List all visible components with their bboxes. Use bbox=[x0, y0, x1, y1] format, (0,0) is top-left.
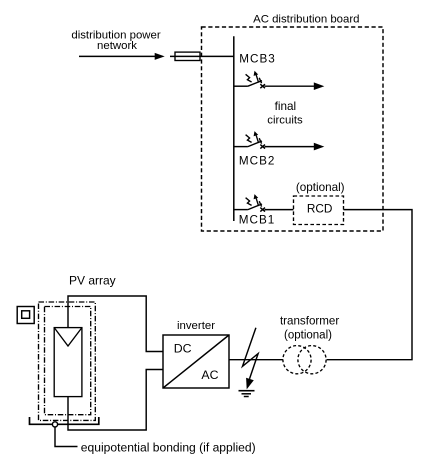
svg-text:MCB3: MCB3 bbox=[239, 53, 275, 66]
svg-text:final: final bbox=[275, 100, 296, 113]
svg-text:DC: DC bbox=[174, 342, 192, 356]
wire: bonding conductor bbox=[55, 427, 78, 447]
wire: fuse lead to busbar bbox=[170, 55, 234, 57]
svg-text:network: network bbox=[97, 40, 137, 52]
label: final circuits bbox=[267, 100, 303, 126]
svg-text:AC: AC bbox=[201, 368, 218, 382]
svg-text:(optional): (optional) bbox=[296, 181, 345, 194]
wire: PV negative to inverter DC input bbox=[68, 370, 163, 431]
svg-text:circuits: circuits bbox=[267, 114, 303, 126]
earthing arrow (functional earth of AC side) bbox=[243, 328, 259, 390]
label: distribution power network bbox=[71, 29, 160, 52]
wire: MCB3 final circuit arrow bbox=[265, 82, 325, 90]
PV module bbox=[54, 328, 82, 397]
fuse F1 bbox=[175, 52, 200, 60]
class II insulation symbol bbox=[17, 307, 34, 324]
wire: MCB1 to RCD bbox=[265, 209, 294, 211]
PV array boundary (dash-dot, inner) bbox=[45, 307, 91, 415]
svg-text:equipotential bonding (if appl: equipotential bonding (if applied) bbox=[81, 440, 256, 454]
svg-text:RCD: RCD bbox=[307, 201, 333, 215]
PV array boundary (dash-dot, outer) bbox=[39, 302, 96, 420]
wire: RCD output down to transformer bbox=[327, 210, 412, 360]
wire: PV positive to inverter DC input bbox=[68, 296, 163, 352]
equipotential bonding bar (bracket) bbox=[30, 417, 99, 424]
svg-text:(optional): (optional) bbox=[284, 330, 332, 342]
wire: busbar bbox=[233, 36, 235, 221]
RCD (dashed box) bbox=[294, 196, 344, 225]
svg-text:MCB2: MCB2 bbox=[239, 154, 275, 167]
MCB3 (circuit breaker) bbox=[234, 71, 265, 89]
svg-text:transformer: transformer bbox=[280, 315, 339, 328]
inverter U1 bbox=[163, 335, 229, 388]
transformer T1 (optional, dashed) bbox=[283, 346, 326, 374]
svg-text:PV array: PV array bbox=[69, 273, 116, 287]
wire: inverter AC output to transformer bbox=[229, 359, 283, 361]
svg-text:MCB1: MCB1 bbox=[239, 214, 275, 227]
label: transformer (optional) bbox=[280, 315, 339, 342]
svg-text:AC distribution board: AC distribution board bbox=[253, 14, 359, 26]
ground bbox=[239, 391, 255, 397]
enclosure: AC distribution board (dashed) bbox=[202, 27, 384, 231]
wire: incoming supply arrow bbox=[79, 53, 165, 60]
MCB1 (circuit breaker) bbox=[234, 194, 265, 212]
MCB2 (circuit breaker) bbox=[234, 131, 265, 149]
wire: MCB2 final circuit arrow bbox=[265, 143, 325, 151]
svg-text:inverter: inverter bbox=[177, 320, 215, 332]
node: bonding connection bbox=[52, 422, 57, 427]
